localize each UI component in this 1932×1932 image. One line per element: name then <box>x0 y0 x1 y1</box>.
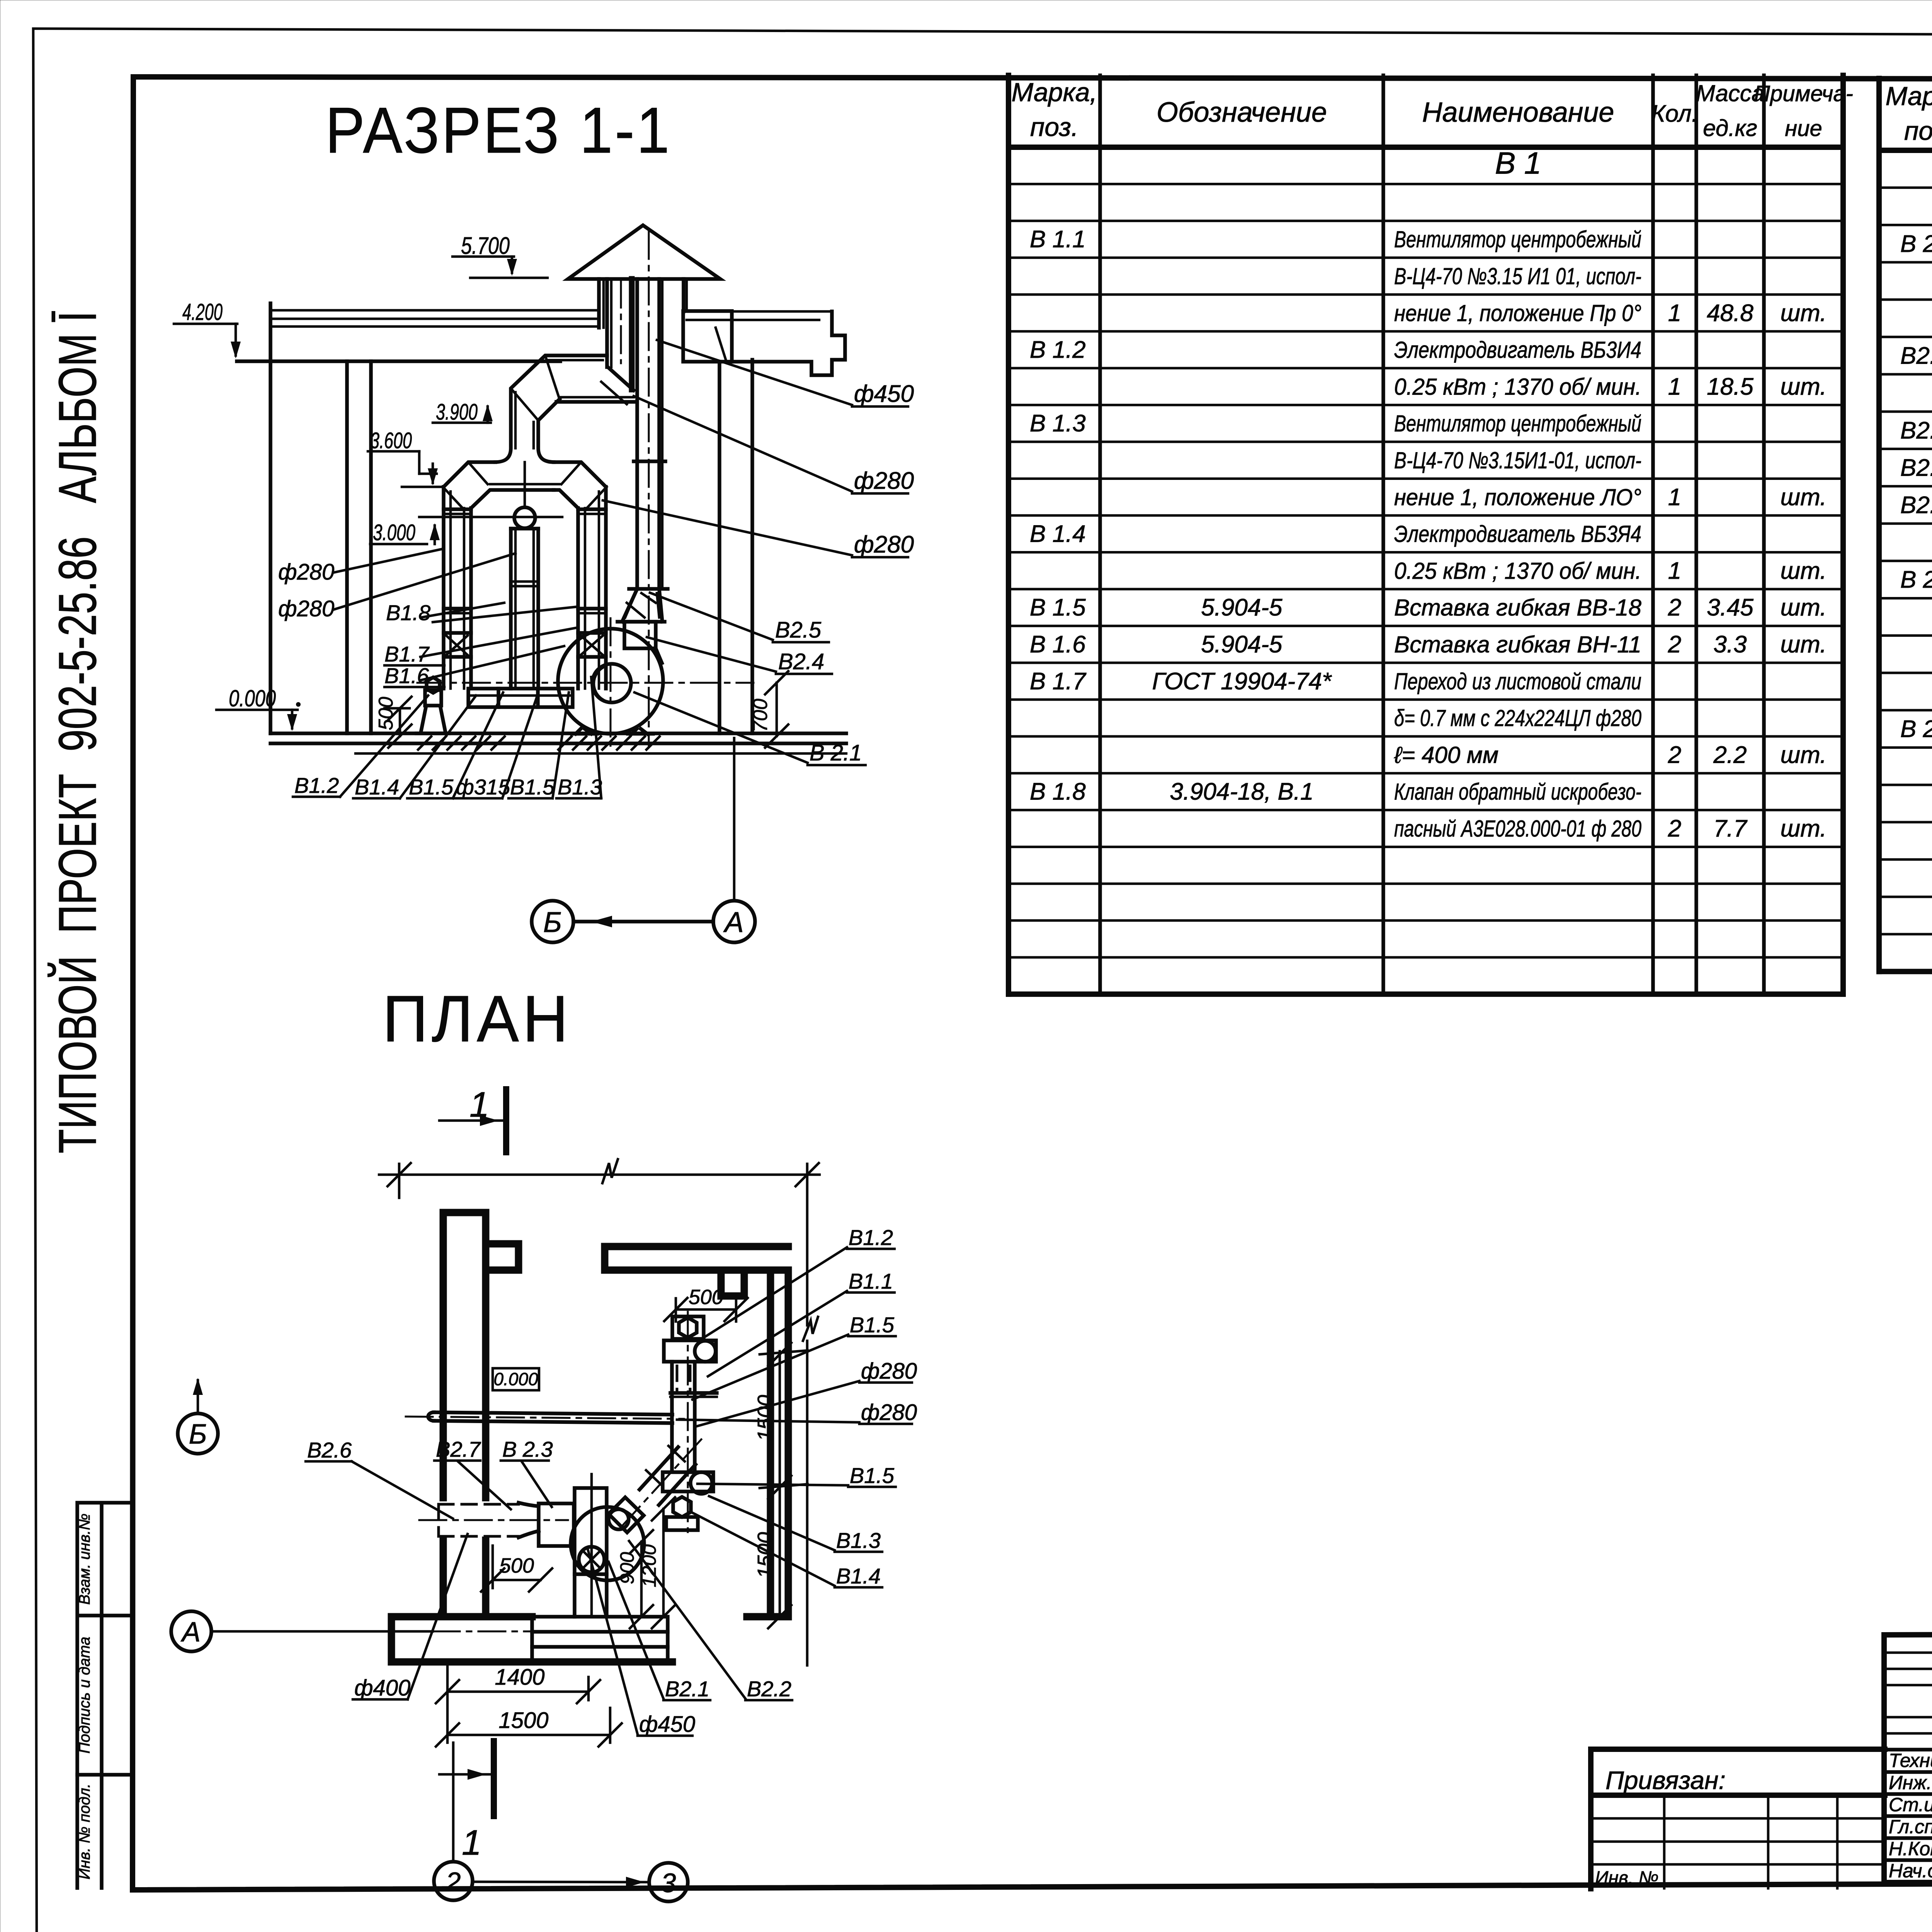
plan label B2.2 <box>629 1541 792 1701</box>
svg-text:1: 1 <box>1668 484 1681 510</box>
svg-text:500: 500 <box>499 1554 534 1577</box>
motor B1.2 on stand <box>417 677 449 733</box>
svg-text:Наименование: Наименование <box>1422 97 1614 128</box>
svg-text:B2.5: B2.5 <box>775 617 821 643</box>
plan label f400 <box>353 1534 468 1701</box>
svg-text:А: А <box>180 1617 201 1648</box>
plan dim 1500 right upper <box>753 1343 808 1628</box>
svg-text:Подпись и дата: Подпись и дата <box>76 1637 93 1754</box>
plan transition B2.7 <box>519 1503 539 1537</box>
svg-text:Нач.отд.: Нач.отд. <box>1889 1860 1932 1881</box>
plan B1 centerline <box>687 1312 689 1532</box>
svg-text:пасный А3Е028.000-01 ф 280: пасный А3Е028.000-01 ф 280 <box>1394 816 1641 842</box>
svg-text:700: 700 <box>749 699 772 732</box>
transition B2.5 <box>617 589 665 622</box>
signature roles and names <box>1889 1750 1932 1881</box>
axis circle A section <box>713 901 755 942</box>
svg-text:В 2.1: В 2.1 <box>1900 231 1932 257</box>
ground hatching left <box>418 736 505 750</box>
plan top dimension line <box>379 1159 820 1198</box>
fan inlet box <box>624 622 656 648</box>
svg-text:В1.5: В1.5 <box>850 1313 895 1337</box>
svg-text:В 2.7: В 2.7 <box>1900 716 1932 743</box>
svg-text:3.600: 3.600 <box>370 428 412 453</box>
svg-text:В 2.3: В 2.3 <box>502 1437 553 1461</box>
svg-text:1200: 1200 <box>638 1544 660 1587</box>
label f280 left lower <box>278 553 515 621</box>
svg-text:Инв. №: Инв. № <box>1595 1868 1658 1888</box>
svg-text:7.7: 7.7 <box>1713 815 1748 842</box>
svg-text:Б: Б <box>189 1419 207 1450</box>
plan section mark 1 top <box>439 1085 506 1152</box>
cornice <box>683 311 845 375</box>
svg-text:Н.Контр.: Н.Контр. <box>1889 1838 1932 1859</box>
svg-text:ф280: ф280 <box>854 468 914 494</box>
svg-text:Кол.: Кол. <box>1651 100 1698 127</box>
svg-text:Клапан обратный искробезо-: Клапан обратный искробезо- <box>1394 779 1641 805</box>
svg-text:Взам. инв.№: Взам. инв.№ <box>76 1514 93 1605</box>
plan top right wall <box>605 1247 788 1296</box>
plan axis circle B <box>178 1378 218 1454</box>
svg-text:поз.: поз. <box>1030 112 1078 142</box>
sidebar box Взам.инв.№ <box>76 1503 133 1888</box>
svg-text:шт.: шт. <box>1781 484 1827 510</box>
plan dim 1500 bottom <box>436 1708 622 1747</box>
svg-text:ф400: ф400 <box>354 1675 410 1701</box>
label B1.8 <box>386 600 578 625</box>
level mark 5.700 <box>452 233 548 278</box>
svg-text:ф450: ф450 <box>639 1712 695 1737</box>
plan axis circle A <box>171 1611 668 1651</box>
svg-text:В1.5: В1.5 <box>409 775 454 799</box>
svg-text:1: 1 <box>469 1085 489 1124</box>
svg-text:В 1.3: В 1.3 <box>1030 410 1086 437</box>
svg-text:В-Ц4-70 №3.15И1-01, испол-: В-Ц4-70 №3.15И1-01, испол- <box>1394 447 1641 473</box>
plan diagonal duct <box>618 1439 701 1530</box>
svg-text:В1.4: В1.4 <box>355 775 399 799</box>
label f280 right lower <box>603 500 914 558</box>
svg-text:Вставка гибкая ВН-11: Вставка гибкая ВН-11 <box>1394 632 1641 658</box>
plan right wall <box>747 1270 788 1617</box>
svg-text:В2.3: В2.3 <box>1900 417 1932 444</box>
svg-text:1: 1 <box>1668 300 1681 327</box>
svg-text:В 1.2: В 1.2 <box>1030 337 1086 363</box>
svg-text:В1.4: В1.4 <box>836 1564 881 1588</box>
plan dim 900 <box>616 1530 653 1628</box>
svg-text:Марка,: Марка, <box>1012 78 1097 107</box>
plan label B2.3 <box>501 1437 553 1507</box>
axis connector line section <box>573 916 713 927</box>
svg-text:В2.1: В2.1 <box>665 1677 709 1701</box>
svg-text:48.8: 48.8 <box>1707 300 1753 327</box>
svg-text:0.000: 0.000 <box>229 685 276 711</box>
dim 500 vertical <box>375 697 412 748</box>
svg-text:В 1.1: В 1.1 <box>1030 226 1086 253</box>
svg-text:B2.4: B2.4 <box>778 649 824 674</box>
section axis line A vertical <box>733 738 736 901</box>
svg-text:1500: 1500 <box>498 1708 548 1733</box>
plan dim 1200 <box>638 1497 675 1628</box>
B1 exhaust duct in stack <box>607 279 632 389</box>
svg-text:δ= 0.7 мм с 224х224ЦЛ ф280: δ= 0.7 мм с 224х224ЦЛ ф280 <box>1394 705 1641 731</box>
B1 arch chamfer flanges <box>444 462 606 509</box>
plan label B2.1 <box>609 1562 710 1701</box>
title block outline <box>1884 1632 1932 1883</box>
plan pipe f280 <box>406 1412 684 1423</box>
svg-text:В 1.7: В 1.7 <box>1030 668 1087 695</box>
exterior wall left <box>269 303 272 733</box>
svg-text:В-Ц4-70 №3.15 И1 01, испол-: В-Ц4-70 №3.15 И1 01, испол- <box>1394 264 1641 289</box>
plan fan B1.3 <box>663 1472 713 1494</box>
svg-text:ГОСТ 19904-74*: ГОСТ 19904-74* <box>1152 668 1332 695</box>
svg-text:Гл.спец.: Гл.спец. <box>1889 1816 1932 1837</box>
svg-text:Вентилятор центробежный: Вентилятор центробежный <box>1394 411 1641 437</box>
B1 duct flanges <box>444 509 606 657</box>
fan feet <box>572 729 653 734</box>
svg-text:ед.кг: ед.кг <box>1703 115 1757 141</box>
svg-text:Привязан:: Привязан: <box>1605 1766 1726 1794</box>
svg-text:Обозначение: Обозначение <box>1156 97 1327 128</box>
svg-text:шт.: шт. <box>1781 373 1827 400</box>
svg-text:Инж.: Инж. <box>1889 1772 1932 1793</box>
label B1.6 <box>384 646 564 688</box>
B1 duct elbow at stack <box>601 367 634 404</box>
label f280 left upper <box>278 549 444 585</box>
plan fan B2.1 <box>571 1474 644 1617</box>
svg-text:Б: Б <box>543 906 562 938</box>
svg-text:Электродвигатель ВБ3Я4: Электродвигатель ВБ3Я4 <box>1394 521 1641 547</box>
svg-text:нение 1, положение ЛО°: нение 1, положение ЛО° <box>1394 484 1641 510</box>
svg-text:В 1.6: В 1.6 <box>1030 631 1086 658</box>
sidebar box Инв.№ подл. <box>76 1784 93 1879</box>
svg-text:В1.5: В1.5 <box>850 1463 895 1488</box>
plan fan B2.1 outlet diamond <box>609 1497 644 1532</box>
svg-text:2: 2 <box>1668 594 1681 621</box>
svg-text:В1.2: В1.2 <box>849 1225 893 1250</box>
svg-text:3.904-18, В.1: 3.904-18, В.1 <box>1170 779 1313 805</box>
plan right labels <box>677 1225 917 1588</box>
level mark 3.000 <box>370 517 562 545</box>
fan B2.1 scroll <box>417 618 753 746</box>
svg-text:900: 900 <box>616 1552 638 1584</box>
roof slab <box>237 310 832 361</box>
svg-text:500: 500 <box>689 1286 723 1309</box>
svg-text:шт.: шт. <box>1781 558 1827 584</box>
svg-text:Переход из листовой стали: Переход из листовой стали <box>1394 668 1641 694</box>
svg-text:В 1: В 1 <box>1495 146 1541 180</box>
svg-text:ПЛАН: ПЛАН <box>383 982 572 1056</box>
section bottom labels row <box>293 677 602 799</box>
svg-text:Техник: Техник <box>1889 1750 1932 1771</box>
signature table grid <box>1884 1634 1932 1882</box>
svg-text:0.25 кВт ; 1370 об/ мин.: 0.25 кВт ; 1370 об/ мин. <box>1394 374 1641 400</box>
svg-text:Марка,: Марка, <box>1886 82 1932 111</box>
privyazan box <box>1591 1749 1885 1889</box>
svg-text:ние: ние <box>1785 116 1822 141</box>
B1 riser duct <box>495 355 636 462</box>
svg-text:ф450: ф450 <box>854 381 914 407</box>
level mark 0.000 <box>216 685 301 731</box>
svg-text:ф280: ф280 <box>854 531 914 558</box>
plan duct f400 dashed <box>419 1504 568 1536</box>
svg-text:1: 1 <box>1668 373 1681 400</box>
svg-text:А: А <box>723 906 743 938</box>
plan level box 0.000 <box>493 1368 539 1390</box>
svg-text:В1.7: В1.7 <box>384 642 430 666</box>
svg-text:шт.: шт. <box>1781 815 1827 842</box>
svg-text:В2.4: В2.4 <box>1900 454 1932 481</box>
B2 duct in stack <box>629 232 668 746</box>
svg-text:В2.6: В2.6 <box>307 1438 352 1462</box>
plan motor B1.4 <box>666 1497 698 1530</box>
label f450 right <box>657 340 914 407</box>
flexible inserts B1.5 B1.6 <box>446 636 603 655</box>
svg-text:500: 500 <box>375 697 397 730</box>
svg-text:В2.2: В2.2 <box>747 1677 791 1701</box>
svg-text:поз.: поз. <box>1904 116 1932 146</box>
plan bottom wall and foundation <box>391 1617 672 1662</box>
label B2.1 <box>634 692 866 765</box>
svg-text:В 1.8: В 1.8 <box>1030 779 1086 805</box>
svg-text:шт.: шт. <box>1781 594 1827 621</box>
plan left wall <box>443 1213 519 1498</box>
svg-text:Инв. № подл.: Инв. № подл. <box>76 1784 93 1879</box>
svg-text:В 1.4: В 1.4 <box>1030 521 1086 548</box>
plan section mark 1 bottom <box>439 1741 494 1862</box>
plan insert B2.3 <box>539 1503 574 1546</box>
axis circle B section <box>532 901 573 942</box>
svg-text:В1.5: В1.5 <box>510 775 555 799</box>
svg-text:5.700: 5.700 <box>461 233 510 259</box>
svg-text:3: 3 <box>661 1868 676 1898</box>
label B1.7 <box>384 628 576 666</box>
table B1 header <box>1012 78 1853 142</box>
level mark 3.900 <box>433 400 493 425</box>
svg-text:5.904-5: 5.904-5 <box>1201 631 1282 658</box>
svg-text:3.45: 3.45 <box>1707 594 1753 621</box>
right wall <box>719 360 752 733</box>
sidebar box Подпись и дата <box>76 1637 133 1775</box>
plan dim 500 top <box>664 1286 748 1321</box>
table B1 grid <box>1009 75 1843 994</box>
plan label f450 <box>587 1548 695 1737</box>
level mark 3.600 <box>368 428 444 487</box>
svg-text:В1.8: В1.8 <box>386 600 430 625</box>
table B1 rows text <box>1030 146 1827 842</box>
svg-text:ф280: ф280 <box>278 596 334 621</box>
svg-text:2: 2 <box>1668 631 1681 658</box>
svg-text:1: 1 <box>462 1823 481 1862</box>
svg-text:1500: 1500 <box>753 1395 777 1441</box>
base frame <box>468 689 573 707</box>
table B2 header <box>1886 82 1932 146</box>
plan axis connector 2-3 <box>473 1877 649 1888</box>
svg-text:5.904-5: 5.904-5 <box>1201 594 1282 621</box>
plan right extension line <box>803 1164 818 1665</box>
svg-text:Вставка гибкая ВВ-18: Вставка гибкая ВВ-18 <box>1394 595 1642 621</box>
svg-text:18.5: 18.5 <box>1707 373 1753 400</box>
svg-text:4.200: 4.200 <box>182 299 223 325</box>
dim 700 vertical <box>749 671 788 748</box>
B1 middle column duct <box>511 462 538 689</box>
svg-text:ф280: ф280 <box>861 1400 917 1425</box>
svg-text:1400: 1400 <box>495 1665 544 1690</box>
svg-text:1: 1 <box>1668 558 1681 584</box>
svg-text:2: 2 <box>1668 815 1681 842</box>
svg-text:2: 2 <box>1668 742 1681 768</box>
svg-text:шт.: шт. <box>1781 742 1827 768</box>
label B2.5 <box>650 593 829 643</box>
svg-text:ф280: ф280 <box>861 1359 917 1384</box>
outer stack f450 sleeve <box>599 279 687 328</box>
svg-text:0.000: 0.000 <box>493 1369 538 1389</box>
left interior wall <box>347 361 371 733</box>
svg-text:3.3: 3.3 <box>1713 631 1747 658</box>
svg-text:ℓ= 400 мм: ℓ= 400 мм <box>1394 742 1498 768</box>
svg-text:3.000: 3.000 <box>373 520 415 545</box>
plan motor B1.2 <box>672 1316 704 1339</box>
label f280 right upper <box>634 396 914 494</box>
plan label B2.7 <box>434 1437 511 1509</box>
floor lines <box>270 733 846 753</box>
svg-text:В1.6: В1.6 <box>384 663 429 688</box>
svg-text:Ст.инж.: Ст.инж. <box>1889 1794 1932 1815</box>
svg-text:ТИПОВОЙ ПРОЕКТ 902-5-25.86: ТИПОВОЙ ПРОЕКТ 902-5-25.86 АЛЬБОМ Ī <box>48 311 107 1153</box>
svg-text:В 1.5: В 1.5 <box>1030 594 1086 621</box>
level mark 4.200 <box>174 299 241 359</box>
svg-text:B 2.1: B 2.1 <box>810 740 862 765</box>
plan dim 500 lower <box>481 1546 552 1592</box>
svg-text:0.25 кВт ; 1370 об/ мин.: 0.25 кВт ; 1370 об/ мин. <box>1394 558 1641 584</box>
plan label B2.6 <box>306 1438 453 1519</box>
label B2.4 <box>647 637 832 674</box>
plan duct B1.5 <box>670 1362 717 1472</box>
svg-text:2.2: 2.2 <box>1713 742 1747 768</box>
svg-text:шт.: шт. <box>1781 631 1827 658</box>
table B2 rows text <box>1900 150 1932 817</box>
svg-text:РАЗРЕЗ 1-1: РАЗРЕЗ 1-1 <box>325 94 672 167</box>
svg-text:В2.5: В2.5 <box>1900 492 1932 519</box>
plan left wall lower <box>443 1540 486 1617</box>
umbrella cap <box>568 225 720 279</box>
plan axis circle 2 <box>434 1743 473 1900</box>
svg-text:В1.3: В1.3 <box>558 775 602 799</box>
table B2 grid <box>1879 78 1932 1101</box>
B1 duct arch outline <box>444 462 606 689</box>
plan axis circle 3 <box>649 1863 688 1901</box>
svg-text:3.900: 3.900 <box>436 400 478 425</box>
svg-text:2: 2 <box>446 1867 461 1897</box>
svg-text:В1.2: В1.2 <box>294 773 339 798</box>
svg-text:ф280: ф280 <box>278 560 334 585</box>
svg-text:нение 1, положение Пр 0°: нение 1, положение Пр 0° <box>1394 300 1641 326</box>
svg-text:В1.3: В1.3 <box>836 1528 881 1553</box>
svg-text:шт.: шт. <box>1781 300 1827 327</box>
ground hatching right <box>558 736 660 750</box>
plan dim 1400 <box>436 1665 600 1743</box>
svg-text:В 2.6: В 2.6 <box>1900 566 1932 593</box>
plan fan B1.1 <box>664 1340 716 1362</box>
svg-text:Примеча-: Примеча- <box>1754 81 1853 106</box>
svg-text:В2.7: В2.7 <box>436 1437 481 1461</box>
svg-text:Вентилятор центробежный: Вентилятор центробежный <box>1394 226 1641 252</box>
svg-text:В2.2: В2.2 <box>1900 343 1932 369</box>
svg-text:Электродвигатель ВБ3И4: Электродвигатель ВБ3И4 <box>1394 337 1641 363</box>
svg-text:В1.1: В1.1 <box>849 1269 893 1293</box>
